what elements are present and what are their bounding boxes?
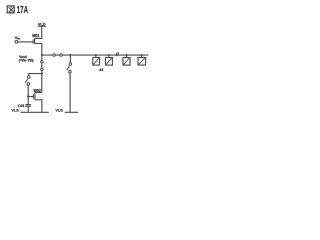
figure title 図17A [7, 6, 14, 13]
switch S3 (open, vertical) [27, 76, 30, 79]
node T junction dot [41, 73, 43, 75]
main horizontal line [42, 54, 149, 56]
M02 source to VLS rail [35, 100, 42, 113]
VLD rail bar [38, 25, 46, 27]
wire VLD to M01 drain [35, 26, 42, 38]
wire Vin to M01 gate [18, 41, 33, 43]
pixel cell 2 [108, 54, 110, 56]
node C junction dot [27, 96, 29, 98]
line break symbol [116, 52, 117, 56]
M01 source lead [35, 43, 42, 55]
svg-text:41: 41 [99, 68, 103, 72]
svg-text:(=Vin−Vth): (=Vin−Vth) [19, 59, 34, 63]
switch S2 chain (closed, vertical below node A) [41, 55, 43, 74]
switch S4 chain (open, below node B) [69, 55, 71, 63]
svg-text:VLS: VLS [11, 107, 19, 112]
svg-text:VLS: VLS [55, 107, 63, 112]
svg-text:C01: C01 [18, 103, 26, 108]
pixel cell 4 [141, 54, 143, 56]
wire node T down to M02 drain [41, 74, 43, 93]
wire S3 to node C [27, 85, 29, 104]
node A junction dot [41, 54, 43, 56]
svg-text:Vin: Vin [15, 35, 21, 40]
pixel cell 3 [126, 54, 128, 56]
wire node T to switch S3 [29, 74, 42, 76]
pixel cell 1 [95, 54, 97, 56]
svg-text:M01: M01 [32, 33, 40, 38]
switch S1 (closed, on main line) [53, 54, 56, 57]
svg-text:17A: 17A [17, 5, 29, 16]
node B junction dot [69, 54, 71, 56]
wire node C to M02 gate [28, 96, 33, 98]
